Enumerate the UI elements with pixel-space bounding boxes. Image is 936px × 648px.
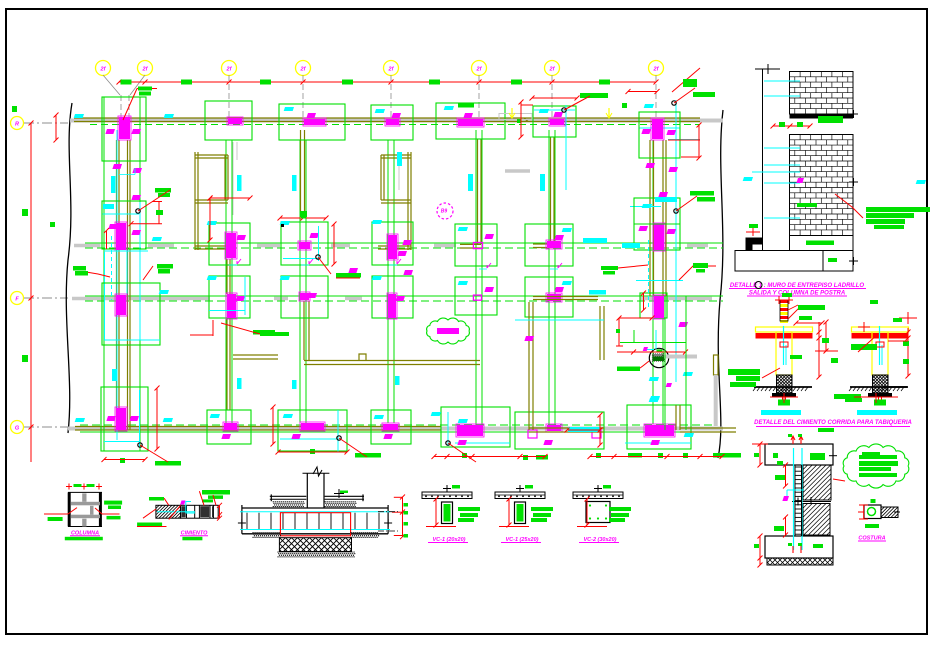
svg-text:DETALLE DEL CIMIENTO CORRIDA P: DETALLE DEL CIMIENTO CORRIDA PARA TABIQU…: [754, 420, 912, 426]
svg-text:R: R: [15, 122, 19, 128]
svg-text:G: G: [15, 426, 20, 432]
svg-text:B9: B9: [441, 209, 448, 215]
